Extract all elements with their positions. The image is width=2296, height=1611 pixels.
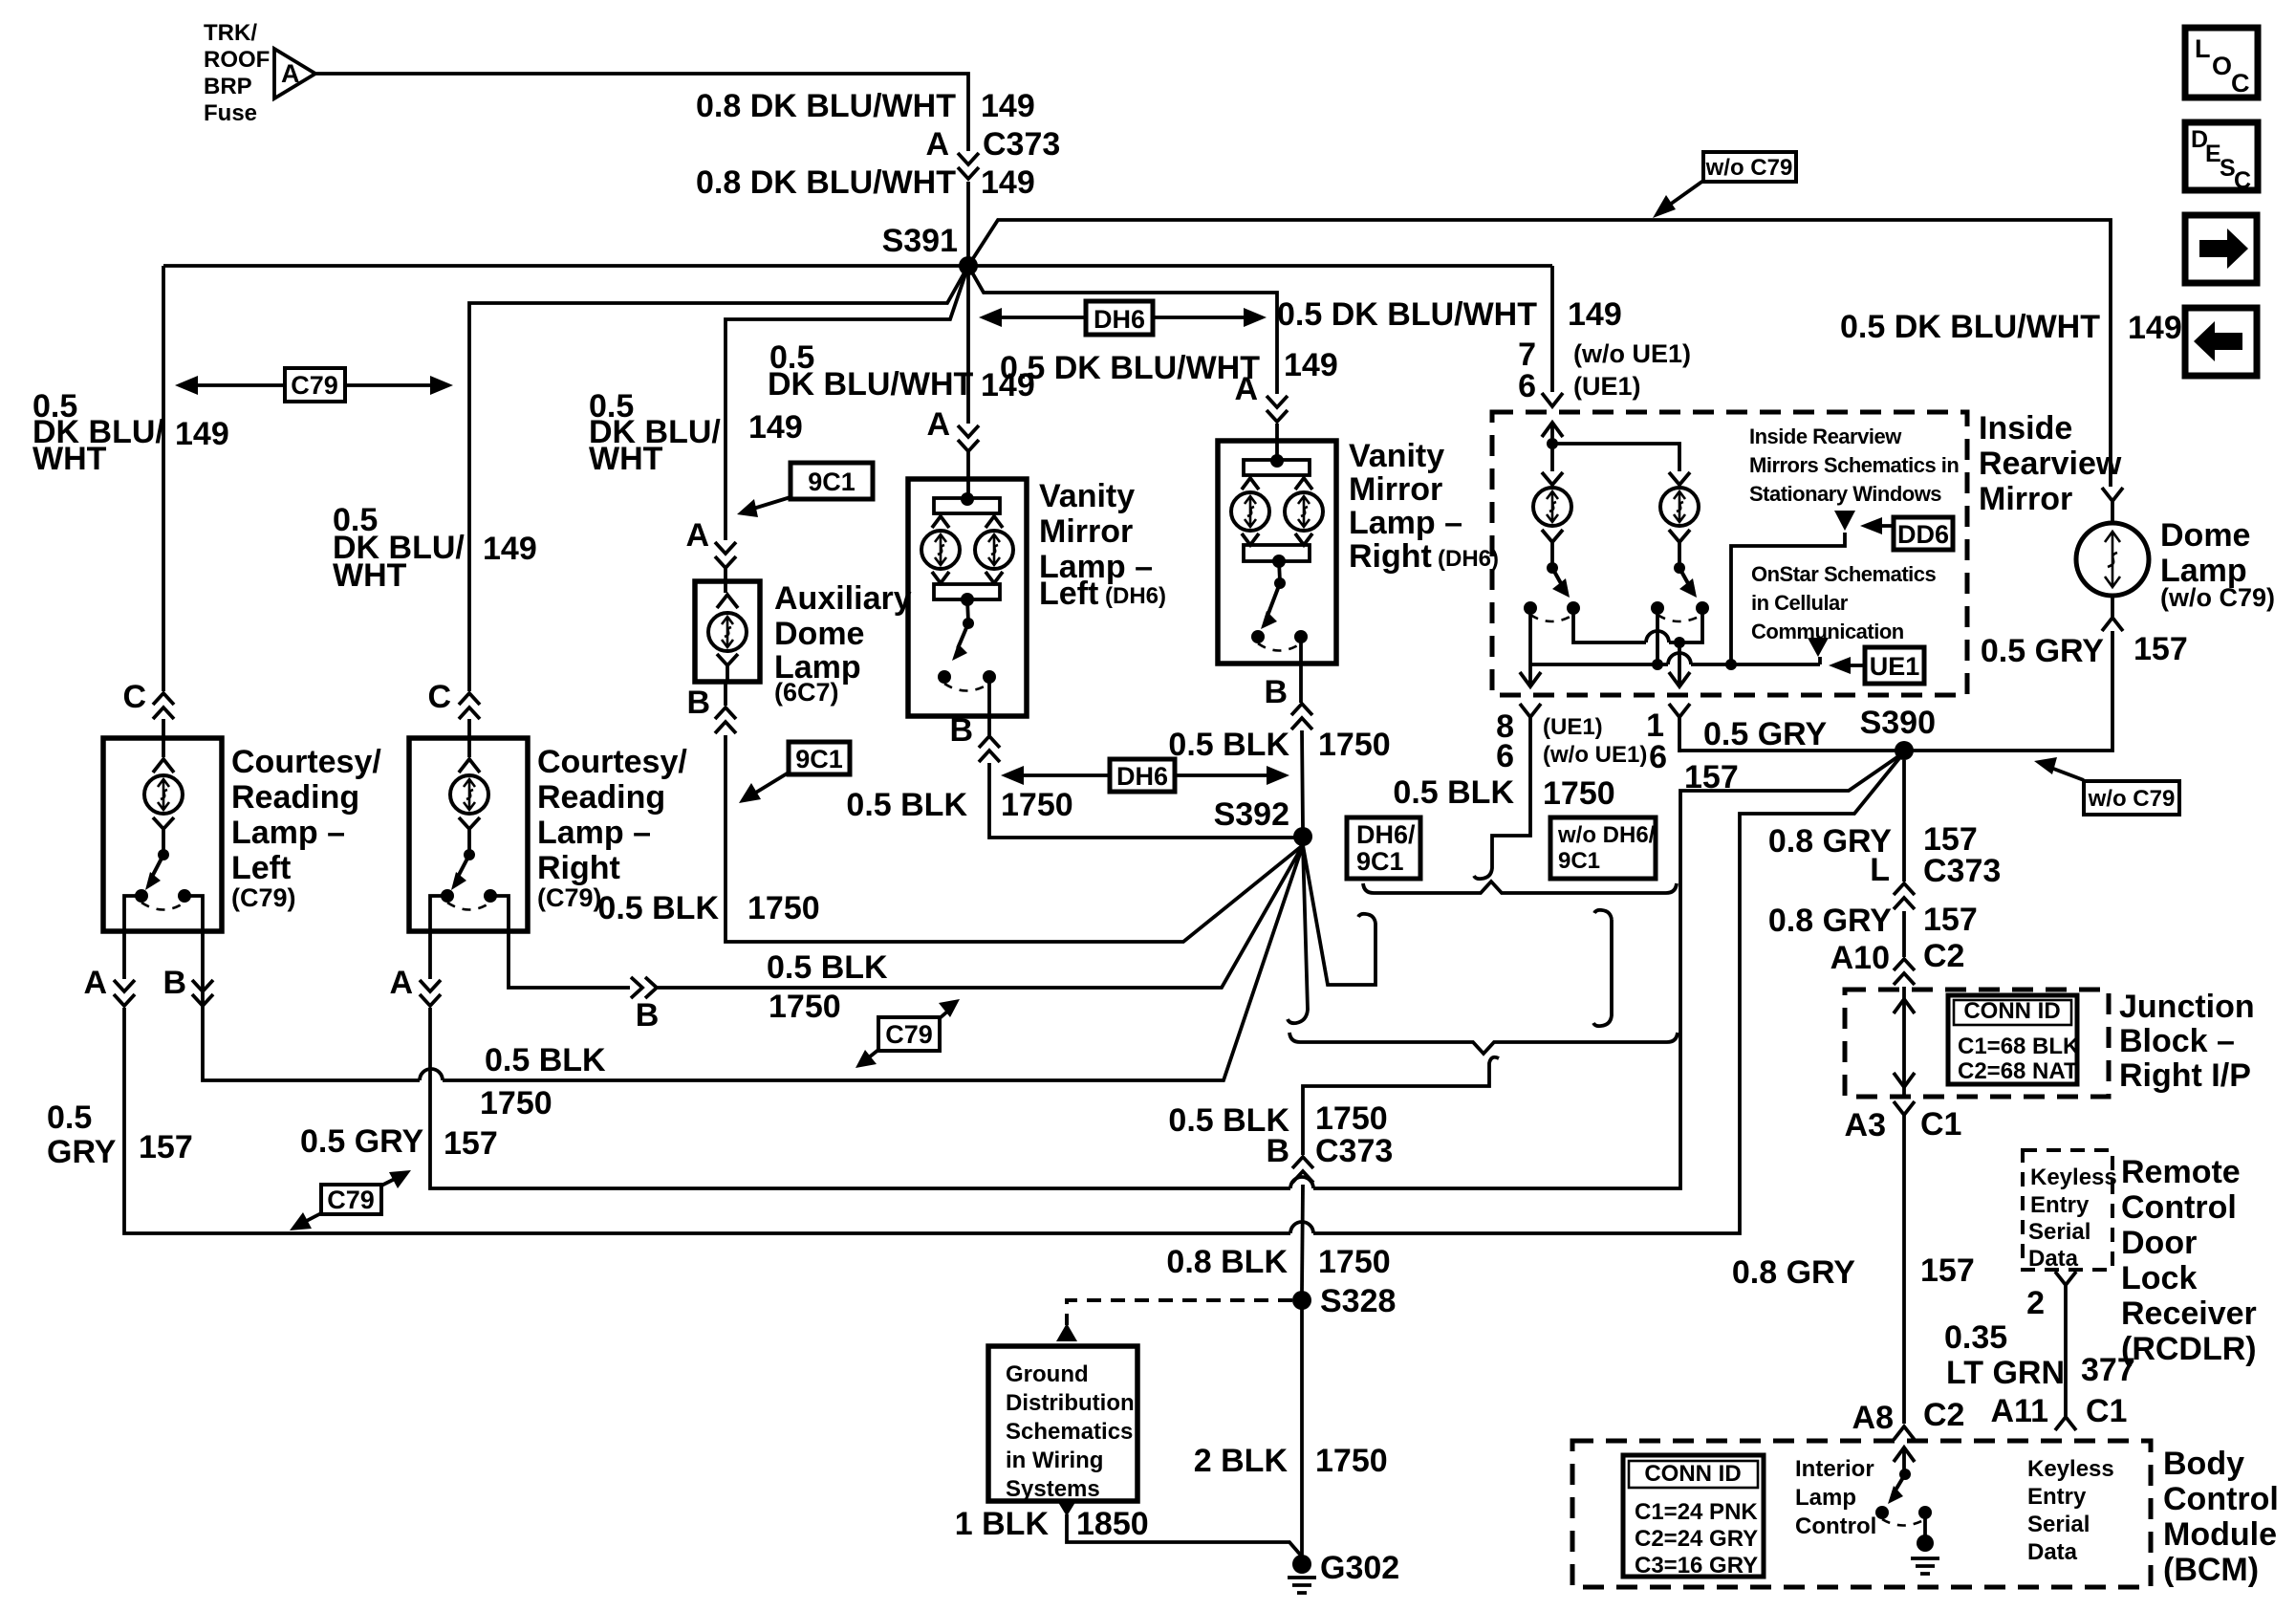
svg-text:Block –: Block –: [2119, 1023, 2235, 1059]
antenna DD6 (stationary windows): [1834, 511, 1855, 531]
label 0.8 DK BLU/WHT 149 (above C373): [696, 88, 1035, 124]
label 0.5 DK BLU/WHT 149 (vanity left feed): [768, 339, 1035, 403]
wire S391 to aux dome lamp A (x=759): [726, 266, 968, 540]
svg-text:L: L: [2195, 34, 2211, 63]
auxiliary dome lamp box: [695, 581, 760, 682]
splice S392: [1293, 827, 1312, 846]
wire courtesy right B to S392 (0.5 BLK 1750): [509, 845, 1303, 988]
svg-text:A: A: [83, 965, 107, 1001]
wire bus to DD6 antenna: [1731, 533, 1845, 664]
svg-text:S328: S328: [1320, 1283, 1396, 1319]
wire courtesy left B down/right (0.5 BLK 1750) to S392: [203, 845, 1303, 1080]
svg-text:(UE1): (UE1): [1543, 714, 1603, 740]
reference box LOC: [2185, 28, 2258, 98]
vanity right bulb 2: [1285, 492, 1323, 531]
label Interior Lamp Control: [1795, 1456, 1876, 1539]
svg-text:(DH6): (DH6): [1438, 546, 1499, 572]
svg-text:Body: Body: [2163, 1446, 2244, 1482]
courtesy left lamp bulb: [144, 775, 183, 814]
svg-text:w/o C79: w/o C79: [1705, 155, 1793, 181]
svg-text:2 BLK: 2 BLK: [1194, 1443, 1289, 1479]
BCM switch ground: [1911, 1513, 1939, 1574]
svg-text:Right: Right: [1349, 538, 1432, 575]
connector vanity left pin B: [979, 736, 1000, 762]
svg-text:0.5 GRY: 0.5 GRY: [1703, 716, 1827, 752]
svg-text:1750: 1750: [480, 1085, 552, 1121]
svg-text:Serial: Serial: [2027, 1512, 2090, 1537]
label 0.5 GRY 157 (courtesy right A): [300, 1123, 498, 1162]
svg-text:157: 157: [1684, 759, 1739, 795]
label Courtesy/Reading Lamp - Right (C79): [537, 744, 687, 912]
label 2 BLK 1750: [1194, 1443, 1388, 1479]
label Vanity Mirror Lamp - Right (DH6): [1349, 438, 1499, 575]
svg-text:149: 149: [981, 164, 1035, 201]
wire S391 main horizontal: [163, 264, 1552, 268]
svg-text:Data: Data: [2028, 1246, 2079, 1272]
svg-text:C373: C373: [983, 126, 1060, 163]
label 0.8 GRY 157 (above C373 L): [1768, 821, 1978, 860]
svg-text:Junction: Junction: [2119, 989, 2255, 1025]
svg-text:DH6: DH6: [1116, 762, 1168, 791]
connector DH6 double arrow (lower): [1001, 759, 1289, 792]
svg-text:9C1: 9C1: [795, 745, 843, 773]
label 0.5 BLK 1750 (C373 B): [1168, 1100, 1387, 1139]
svg-text:in Cellular: in Cellular: [1751, 591, 1849, 615]
connector C courtesy left (chevrons): [153, 693, 174, 719]
label 0.5 GRY 157 (courtesy left A): [47, 1099, 193, 1170]
label 0.5 DK BLU/WHT 149 (S391 right): [1277, 296, 1622, 333]
label A8 C2: [1852, 1397, 1965, 1436]
svg-text:Serial: Serial: [2028, 1219, 2090, 1245]
svg-text:L: L: [1870, 852, 1890, 888]
svg-text:Door: Door: [2121, 1225, 2197, 1261]
connector courtesy left pin B: [192, 980, 213, 1006]
svg-text:Module: Module: [2163, 1516, 2277, 1553]
svg-text:G302: G302: [1320, 1550, 1399, 1586]
vanity left bus bar top: [932, 492, 1003, 528]
vanity mirror lamp left box: [908, 479, 1027, 716]
splice S328: [1292, 1291, 1311, 1310]
svg-text:Dome: Dome: [2160, 517, 2250, 554]
label (UE1) (w/o UE1): [1543, 714, 1647, 768]
svg-text:Interior: Interior: [1795, 1456, 1874, 1482]
connector C373 pin B (chevrons): [1292, 1157, 1313, 1183]
svg-text:149: 149: [175, 416, 229, 452]
wire vanity left B down to S392: [989, 716, 1303, 838]
svg-text:Courtesy/: Courtesy/: [231, 744, 381, 780]
svg-text:Lamp –: Lamp –: [537, 815, 651, 851]
inside rearview mirror dashed box: [1492, 412, 1967, 695]
vanity right bus bar top: [1242, 454, 1312, 490]
callout w/o C79 (near S390): [2034, 757, 2179, 815]
svg-text:S391: S391: [882, 223, 958, 259]
svg-text:A: A: [925, 126, 949, 163]
svg-text:0.5 BLK: 0.5 BLK: [767, 949, 888, 986]
svg-text:1750: 1750: [747, 890, 820, 926]
svg-text:CONN ID: CONN ID: [1963, 998, 2060, 1024]
svg-text:C2=68 NAT: C2=68 NAT: [1958, 1058, 2078, 1084]
vanity left bulb 1: [921, 531, 960, 569]
svg-text:Inside: Inside: [1979, 410, 2072, 446]
label Vanity Mirror Lamp - Left (DH6): [1039, 478, 1166, 612]
svg-text:Receiver: Receiver: [2121, 1295, 2257, 1332]
svg-text:149: 149: [2128, 310, 2182, 346]
svg-text:149: 149: [748, 409, 803, 446]
label OnStar Schematics in Cellular Communication: [1751, 562, 1937, 643]
fuse label TRK/ROOF BRP Fuse: [204, 20, 270, 126]
svg-text:C3=16 GRY: C3=16 GRY: [1635, 1553, 1758, 1578]
courtesy right switch: [430, 849, 509, 979]
node bus junctions: [1652, 659, 1737, 670]
label Inside Rearview Mirror: [1979, 410, 2122, 517]
svg-text:Left: Left: [1039, 576, 1098, 612]
wire S391 to courtesy left C: [162, 266, 165, 691]
mirror right lamp socket: [1669, 472, 1690, 485]
svg-text:Lock: Lock: [2121, 1260, 2197, 1296]
junction block pass-through arrows: [1894, 999, 1915, 1087]
svg-text:0.5 DK BLU/WHT: 0.5 DK BLU/WHT: [1277, 296, 1537, 333]
svg-text:(C79): (C79): [537, 883, 602, 912]
wire hump (bus over mirror output): [1668, 653, 1691, 664]
label Body Control Module (BCM): [2163, 1446, 2279, 1588]
connector aux dome pin B: [715, 708, 736, 733]
label 0.5 DK BLU/WHT (far left): [32, 388, 229, 477]
svg-text:Mirror: Mirror: [1039, 513, 1133, 550]
svg-text:Entry: Entry: [2030, 1192, 2090, 1218]
svg-text:Courtesy/: Courtesy/: [537, 744, 687, 780]
courtesy left lamp lower socket: [153, 817, 174, 851]
wire hump (B-left over A-right wire): [420, 1069, 443, 1080]
vanity right bus bar bottom: [1242, 533, 1312, 568]
label 7 6: [1518, 337, 1536, 404]
svg-text:(w/o UE1): (w/o UE1): [1543, 742, 1647, 768]
body control module dashed box: [1572, 1441, 2151, 1587]
harness brace lower: [1289, 1033, 1678, 1054]
node x-link junction: [1674, 637, 1685, 648]
mirror right lamp lower socket: [1669, 530, 1690, 564]
wire mirror output to S390 line: [1678, 717, 1681, 752]
svg-text:0.35: 0.35: [1944, 1319, 2007, 1356]
label 0.35 LT GRN 377: [1944, 1319, 2135, 1391]
courtesy right lamp socket chevron: [459, 759, 480, 773]
wire S390 down to BCM A8: [1902, 760, 1906, 1424]
wire into courtesy left box: [162, 719, 165, 757]
svg-text:C2: C2: [1923, 938, 1964, 974]
svg-text:C2=24 GRY: C2=24 GRY: [1635, 1526, 1758, 1552]
svg-text:A: A: [1234, 371, 1258, 407]
mirror left lamp lower socket: [1542, 530, 1563, 564]
svg-text:S392: S392: [1214, 796, 1289, 833]
svg-text:B: B: [1264, 674, 1288, 710]
mirror left switch: [1524, 562, 1580, 621]
svg-text:157: 157: [444, 1125, 498, 1162]
svg-text:9C1: 9C1: [1558, 848, 1600, 874]
svg-text:(6C7): (6C7): [774, 678, 839, 707]
svg-text:0.5 BLK: 0.5 BLK: [1393, 774, 1514, 811]
svg-text:C: C: [122, 679, 146, 715]
svg-text:C373: C373: [1923, 853, 2001, 889]
svg-text:1750: 1750: [1001, 787, 1073, 823]
wire S391 right branch down to mirror pins 7/6: [1550, 266, 1554, 392]
svg-text:C1: C1: [1920, 1106, 1961, 1143]
splice S390: [1895, 741, 1914, 760]
svg-text:C: C: [2231, 69, 2250, 98]
callout DD6: [1860, 517, 1953, 550]
svg-text:B: B: [162, 965, 186, 1001]
svg-text:Keyless: Keyless: [2030, 1165, 2117, 1190]
vanity left bulb 2: [975, 531, 1013, 569]
svg-text:B: B: [1266, 1133, 1289, 1169]
svg-text:Lamp: Lamp: [1795, 1485, 1856, 1511]
label 1 6 (mirror output pins): [1646, 708, 1667, 775]
svg-text:2: 2: [2026, 1285, 2045, 1321]
svg-text:1750: 1750: [1315, 1100, 1388, 1137]
svg-text:Systems: Systems: [1006, 1476, 1100, 1502]
wire S391 to vanity right A: [968, 266, 1277, 394]
vanity right bulb 1: [1231, 492, 1269, 531]
svg-text:0.5 BLK: 0.5 BLK: [597, 890, 719, 926]
svg-text:C1=68 BLK: C1=68 BLK: [1958, 1034, 2080, 1059]
wire hump (A-left over C373 wire): [1290, 1222, 1313, 1233]
svg-text:Remote: Remote: [2121, 1154, 2241, 1190]
splice S391: [959, 256, 978, 275]
svg-text:OnStar Schematics: OnStar Schematics: [1751, 562, 1937, 586]
svg-text:Data: Data: [2027, 1539, 2078, 1565]
svg-text:WHT: WHT: [32, 441, 107, 477]
label 0.5 BLK 1750 (mirror ground): [1393, 774, 1614, 812]
svg-text:Mirror: Mirror: [1349, 471, 1442, 508]
svg-text:Keyless: Keyless: [2027, 1456, 2114, 1482]
courtesy right lamp lower socket: [459, 817, 480, 851]
svg-text:0.5 BLK: 0.5 BLK: [1168, 727, 1289, 763]
label 0.5 GRY 157 (dome side): [1981, 631, 2188, 669]
svg-text:Fuse: Fuse: [204, 100, 257, 126]
conn id table (BCM): [1623, 1455, 1764, 1578]
aux dome socket chevron: [717, 595, 738, 608]
vanity right switch: [1251, 561, 1308, 664]
svg-text:(RCDLR): (RCDLR): [2121, 1331, 2257, 1367]
wire mirror feed left branch: [1550, 444, 1554, 471]
wire mirror ground to break curl (0.5 BLK 1750): [1474, 717, 1530, 879]
label 0.5 BLK 1750 (vanity right B): [1168, 727, 1390, 763]
dashed wire S328 to ground distribution reference: [1056, 1300, 1292, 1341]
label A C373: [925, 126, 1060, 163]
vanity left switch: [938, 599, 996, 716]
label 0.5 BLK 1750 (courtesy right B): [767, 949, 888, 1025]
label L C373: [1870, 852, 2001, 889]
connector aux dome pin A: [715, 542, 736, 568]
svg-text:B: B: [686, 685, 710, 721]
svg-text:Stationary Windows: Stationary Windows: [1749, 482, 1941, 506]
svg-text:Vanity: Vanity: [1039, 478, 1135, 514]
svg-text:A: A: [685, 517, 709, 554]
connector BCM pin A11 (Y): [2055, 1417, 2076, 1430]
svg-text:Control: Control: [1795, 1513, 1876, 1539]
svg-text:6: 6: [1518, 368, 1536, 404]
label Auxiliary Dome Lamp (6C7): [774, 580, 912, 707]
connector RCDLR pin 2 (Y): [2055, 1272, 2076, 1285]
callout C79 (lower left): [290, 1170, 411, 1230]
label Remote Control Door Lock Receiver (RCDLR): [2121, 1154, 2257, 1367]
svg-text:Right I/P: Right I/P: [2119, 1057, 2251, 1094]
svg-text:A10: A10: [1830, 940, 1890, 976]
wire S391 to courtesy right C (x=491): [469, 266, 968, 691]
mirror feed entry arrow: [1542, 423, 1563, 444]
label 0.5 BLK 1750 (vanity left B): [846, 787, 1072, 823]
mirror left lamp bulb: [1533, 488, 1571, 526]
callout UE1: [1829, 647, 1924, 684]
svg-text:Schematics: Schematics: [1006, 1419, 1133, 1445]
svg-text:Distribution: Distribution: [1006, 1390, 1135, 1416]
reference box DESC: [2185, 122, 2258, 194]
courtesy/reading lamp left box: [103, 738, 222, 931]
svg-text:1750: 1750: [1318, 1244, 1391, 1280]
svg-text:9C1: 9C1: [808, 468, 856, 496]
label 0.5 BLK 1750 (aux dome B): [597, 890, 819, 926]
connector vanity left pin A: [958, 425, 979, 451]
label 0.5 BLK 1750 (courtesy left B): [480, 1042, 606, 1121]
svg-text:C373: C373: [1315, 1133, 1393, 1169]
svg-text:Lamp –: Lamp –: [1349, 505, 1462, 541]
svg-text:(w/o C79): (w/o C79): [2160, 583, 2275, 612]
svg-text:C79: C79: [885, 1020, 933, 1049]
wire S392 to harness bracket: [1303, 845, 1375, 985]
node mirror feed junction: [1547, 438, 1558, 449]
svg-text:A3: A3: [1845, 1107, 1886, 1143]
svg-text:DH6: DH6: [1094, 305, 1145, 334]
svg-text:B: B: [949, 712, 973, 749]
svg-text:157: 157: [1920, 1252, 1975, 1289]
svg-text:Control: Control: [2121, 1189, 2237, 1226]
ground G302: [1288, 1555, 1316, 1593]
wire RCDLR to BCM A11 (0.35 LT GRN 377): [2064, 1285, 2068, 1416]
svg-text:149: 149: [1568, 296, 1622, 333]
svg-text:A: A: [281, 59, 300, 88]
label 0.5 DK BLU/WHT 149 (top right): [1840, 309, 2100, 345]
conn id table (junction block): [1948, 995, 2080, 1084]
callout box w/o DH6/9C1: [1550, 817, 1656, 879]
vanity mirror lamp right box: [1218, 441, 1336, 664]
svg-text:O: O: [2212, 52, 2232, 80]
label 0.5 DK BLU/WHT (courtesy right feed): [333, 502, 537, 594]
label 8 6: [1496, 708, 1514, 774]
mirror ground bus: [1530, 663, 1820, 666]
label 1 BLK 1850: [955, 1506, 1149, 1542]
svg-text:A11: A11: [1991, 1393, 2049, 1429]
svg-text:(w/o UE1): (w/o UE1): [1573, 339, 1691, 368]
svg-text:(BCM): (BCM): [2163, 1552, 2259, 1588]
svg-text:0.8 BLK: 0.8 BLK: [1166, 1244, 1288, 1280]
wire hump (x-link over right switch leg): [1646, 631, 1669, 642]
svg-text:S390: S390: [1860, 705, 1936, 741]
svg-text:BRP: BRP: [204, 74, 252, 99]
svg-text:(C79): (C79): [231, 883, 296, 912]
wire S392 stub with break curl: [1288, 845, 1308, 1023]
connector mirror pin 8/6 (Y below box): [1520, 704, 1541, 717]
callout C79 (center, on courtesy-left B line): [856, 999, 960, 1068]
wire S391 to top-right line (w/o C79 dome feed): [968, 220, 2111, 487]
svg-text:DD6: DD6: [1897, 520, 1949, 549]
dome lamp lower socket: [2102, 594, 2123, 631]
svg-text:Mirror: Mirror: [1979, 481, 2072, 517]
label A3 C1: [1845, 1106, 1962, 1143]
harness bracket right: [1593, 910, 1612, 1026]
wire vanity right B down to S392: [1301, 664, 1303, 828]
aux dome lamp bulb: [708, 613, 747, 651]
wire mirror feed to right branch: [1552, 444, 1679, 471]
svg-text:0.5 BLK: 0.5 BLK: [485, 1042, 606, 1078]
callout 9C1 (lower): [739, 742, 850, 803]
svg-text:Communication: Communication: [1751, 620, 1904, 643]
connector C79 double arrow (top left): [175, 368, 453, 402]
svg-text:Vanity: Vanity: [1349, 438, 1444, 474]
mirror left lamp socket: [1542, 472, 1563, 485]
label Dome Lamp (w/o C79): [2160, 517, 2275, 612]
callout box DH6/9C1: [1347, 817, 1420, 879]
svg-text:CONN ID: CONN ID: [1644, 1461, 1741, 1487]
harness brace upper (points to mirror ground wire): [1363, 882, 1677, 893]
svg-text:w/o C79: w/o C79: [2088, 786, 2176, 812]
connector courtesy right pin A: [420, 980, 441, 1006]
svg-text:0.5 BLK: 0.5 BLK: [846, 787, 967, 823]
courtesy left switch: [124, 849, 203, 979]
svg-text:6: 6: [1649, 739, 1667, 775]
wire vanity right A into box: [1275, 424, 1279, 460]
label Courtesy/Reading Lamp - Left (C79): [231, 744, 381, 912]
svg-text:Ground: Ground: [1006, 1361, 1089, 1387]
svg-text:149: 149: [981, 88, 1035, 124]
junction block dashed box: [1845, 990, 2109, 1097]
wire S391 down to vanity left A: [966, 274, 970, 424]
svg-text:1750: 1750: [769, 989, 841, 1025]
wire into courtesy right box: [467, 719, 471, 757]
aux dome lower socket: [717, 654, 738, 682]
connector C courtesy right (chevrons): [459, 693, 480, 719]
svg-text:(DH6): (DH6): [1105, 583, 1166, 609]
antenna UE1 (OnStar): [1808, 638, 1829, 664]
wire aux dome A into box: [724, 568, 727, 593]
svg-text:C: C: [427, 679, 451, 715]
callout box w/o C79 (top): [1653, 152, 1796, 218]
wire courtesy right A down (0.5 GRY 157) to S390: [430, 752, 1904, 1188]
mirror right lamp bulb: [1660, 488, 1699, 526]
label 0.8 DK BLU/WHT 149 (below C373): [696, 164, 1035, 201]
wire mirror left switch right contact to x-link: [1573, 608, 1702, 642]
svg-text:B: B: [636, 997, 660, 1034]
wire C373 to S391: [966, 182, 970, 259]
svg-text:Reading: Reading: [537, 779, 665, 816]
svg-text:377: 377: [2081, 1352, 2135, 1388]
connector vanity right pin A: [1267, 396, 1288, 422]
connector B in-line (chevrons): [631, 977, 657, 998]
wire S328 to G302 (2 BLK 1750): [1300, 1309, 1304, 1557]
connector C373 pin L (chevrons): [1894, 883, 1915, 909]
svg-text:C: C: [2234, 167, 2251, 194]
svg-text:149: 149: [483, 531, 537, 567]
courtesy/reading lamp right box: [409, 738, 528, 931]
connector mirror pin 7/6 (Y): [1542, 393, 1563, 406]
svg-text:ROOF: ROOF: [204, 47, 270, 73]
wire fuse to C373 connector: [315, 74, 968, 151]
wire hump (A-right over C373 wire): [1290, 1177, 1313, 1188]
label B C373: [1266, 1133, 1393, 1169]
svg-text:C79: C79: [327, 1186, 375, 1214]
svg-text:149: 149: [1284, 347, 1338, 383]
connector junction block pin A10 (chevrons): [1894, 959, 1915, 985]
svg-text:WHT: WHT: [333, 557, 407, 594]
svg-text:9C1: 9C1: [1356, 847, 1404, 876]
svg-text:Dome: Dome: [774, 616, 864, 652]
